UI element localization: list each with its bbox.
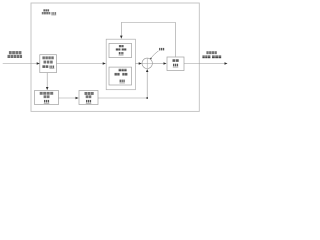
box 703 text line1 [119, 69, 127, 72]
wire: input arrow into box 301 [3, 63, 40, 65]
ref numeral 300 (underlined) [51, 12, 56, 15]
box 703 text line2 [115, 73, 128, 76]
wire: feedback from box 307 top to container top [121, 23, 175, 57]
box 301 [40, 55, 57, 73]
label: right output text line1 [206, 51, 216, 54]
label: top title line2 [42, 12, 51, 14]
box 301 text line3 + ref numeral 301 (underlined) [42, 65, 54, 69]
ref numeral 307 (underlined) [173, 64, 179, 67]
wire: output arrow from box 307 to right edge [184, 63, 227, 65]
box 301 text line2 [44, 61, 53, 64]
box 204 text line1 [40, 92, 54, 95]
box 307 [167, 57, 184, 71]
box 301 text line1 [42, 57, 53, 60]
outer box 300 (encoder) [31, 3, 199, 111]
box 204 text line2 [44, 96, 50, 99]
wire: circle 306 to box 307 [152, 63, 166, 65]
label 306 with leader line [150, 48, 164, 59]
wire: box 202 right then up into circle 306 [98, 69, 148, 98]
label: right output text line2 [202, 56, 221, 59]
box 202 text line1 [85, 92, 94, 95]
container box (dashed group) [106, 39, 135, 89]
ref numeral 702 (underlined) [119, 52, 124, 55]
box 702 [109, 43, 132, 57]
wire: box 301 to container [57, 63, 106, 65]
label: left input text line2 [8, 55, 23, 58]
ref numeral 703 (underlined) [119, 80, 125, 83]
ref numeral 202 (underlined) [86, 100, 92, 103]
label: top title line1 [43, 9, 49, 11]
ref numeral 204 (underlined) [44, 100, 50, 103]
label: left input text line1 [9, 51, 22, 54]
box 703 [109, 67, 132, 85]
wire: container to circle 306 [135, 63, 141, 65]
box 202 text line2 [86, 96, 92, 99]
box 202 [79, 91, 98, 105]
summing circle 306 [142, 58, 152, 68]
box 702 text line1 [119, 45, 124, 47]
box 307 text line1 [173, 59, 179, 62]
box 702 text line2 [116, 48, 126, 51]
wire: box 204 to box 202 [59, 97, 79, 99]
box 204 [35, 91, 59, 105]
wire: box 301 down to box 204 [46, 73, 48, 90]
